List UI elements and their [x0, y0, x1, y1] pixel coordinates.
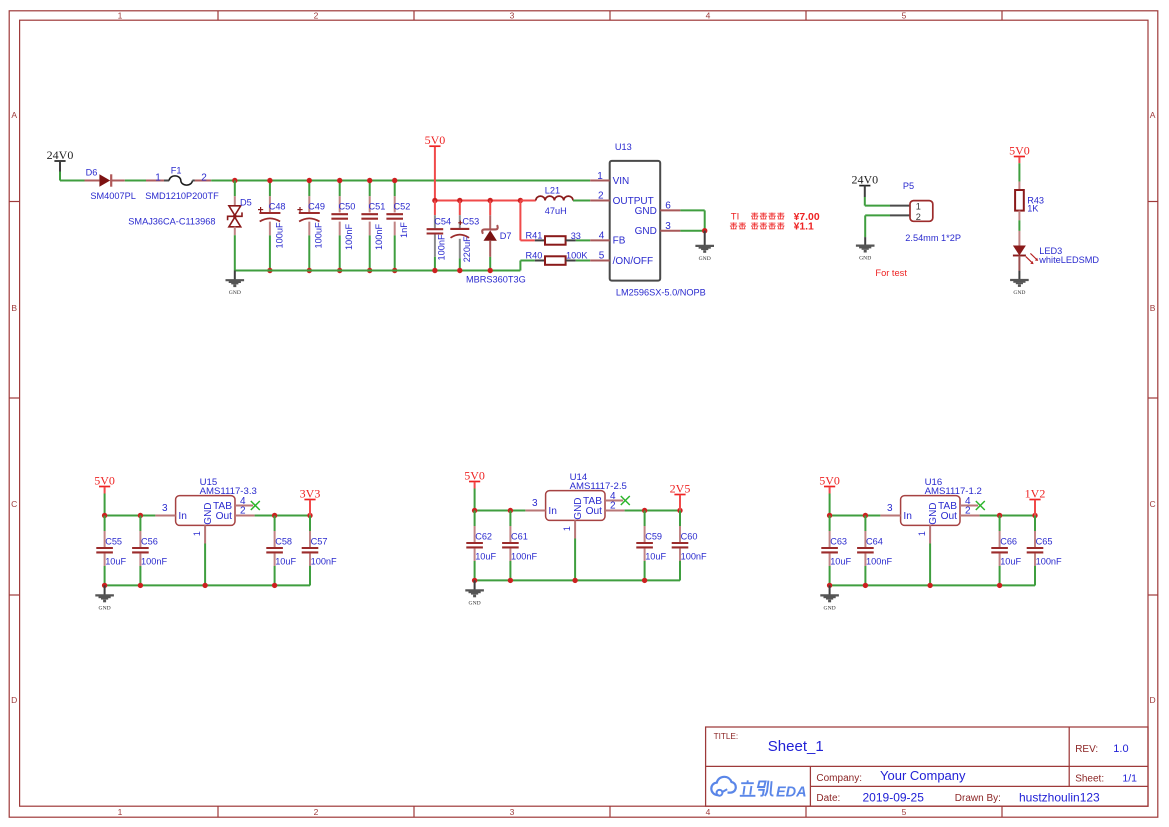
svg-text:2: 2: [598, 191, 604, 202]
capacitor C59 10uF: [636, 511, 666, 581]
net label 3V3: [300, 486, 321, 500]
svg-text:C64: C64: [866, 537, 883, 547]
svg-text:4: 4: [706, 807, 711, 817]
svg-text:C: C: [11, 499, 17, 509]
svg-text:2V5: 2V5: [670, 481, 691, 495]
svg-text:U13: U13: [615, 142, 632, 152]
svg-text:C57: C57: [311, 537, 328, 547]
wire 24V0 stem: [59, 161, 61, 172]
svg-text:MBRS360T3G: MBRS360T3G: [466, 275, 526, 285]
wire 5V0 stem (U14): [474, 482, 476, 511]
wire 5V0 to R43: [1018, 157, 1020, 182]
svg-text:D: D: [11, 695, 17, 705]
svg-text:D7: D7: [500, 231, 512, 241]
capacitor C64 100nF: [857, 516, 892, 586]
svg-text:B: B: [1150, 303, 1156, 313]
svg-text:1: 1: [118, 807, 123, 817]
connector P5 2.54mm 1*2P: [890, 181, 961, 243]
svg-text:C56: C56: [141, 537, 158, 547]
svg-text:100nF: 100nF: [681, 552, 707, 562]
svg-text:10uF: 10uF: [645, 552, 666, 562]
svg-text:1V2: 1V2: [1025, 486, 1046, 500]
svg-text:For test: For test: [875, 268, 907, 278]
svg-text:C66: C66: [1000, 537, 1017, 547]
svg-text:1: 1: [597, 171, 603, 182]
svg-text:33: 33: [571, 231, 581, 241]
svg-text:100uF: 100uF: [314, 222, 324, 248]
pin 2 Out (U16): [960, 505, 980, 516]
wire ground rail (U14): [472, 561, 680, 583]
wire 2V5 stem: [679, 495, 681, 511]
wire ground rail (U16): [827, 566, 1035, 588]
wire U13 GND pins to ground: [680, 210, 707, 233]
wire 5V0 stem (U16): [829, 487, 831, 516]
svg-text:SMD1210P200TF: SMD1210P200TF: [145, 191, 219, 201]
regulator U14 AMS1117-2.5: [546, 472, 627, 521]
capacitor C56 100nF: [132, 516, 167, 586]
svg-text:C51: C51: [369, 201, 386, 211]
svg-text:2019-09-25: 2019-09-25: [863, 791, 925, 805]
wire 24V0 rail to D6: [60, 180, 85, 182]
diode D5 SMAJ36CA-C113968 (TVS): [128, 178, 251, 271]
svg-text:D: D: [1150, 695, 1156, 705]
svg-text:1: 1: [917, 531, 927, 536]
wire 5V0 stem (U15): [104, 487, 106, 516]
svg-text:C52: C52: [394, 201, 411, 211]
wire input rail (U16): [827, 513, 881, 518]
capacitor C62 10uF: [466, 511, 496, 581]
resistor R41 33: [526, 230, 591, 244]
ground rail wire: [235, 270, 521, 272]
svg-text:100nF: 100nF: [374, 224, 384, 250]
capacitor C60 100nF: [672, 511, 707, 581]
svg-text:100nF: 100nF: [1036, 557, 1062, 567]
svg-text:Sheet:: Sheet:: [1075, 773, 1104, 784]
resistor R40 100K: [526, 250, 591, 264]
pin 1 GND (U14): [562, 520, 575, 580]
wire 1V2 stem: [1034, 500, 1036, 516]
svg-text:B: B: [11, 303, 17, 313]
svg-text:5: 5: [902, 807, 907, 817]
svg-text:AMS1117-3.3: AMS1117-3.3: [200, 486, 257, 497]
svg-text:100nF: 100nF: [866, 557, 892, 567]
svg-text:10uF: 10uF: [275, 557, 296, 567]
wire output rail (U15): [255, 513, 313, 518]
svg-text:AMS1117-1.2: AMS1117-1.2: [925, 486, 982, 497]
svg-text:GND: GND: [635, 226, 657, 237]
svg-text:5: 5: [902, 11, 907, 21]
resistor R43 1K: [1015, 182, 1044, 221]
regulator U16 AMS1117-1.2: [901, 477, 982, 526]
ground (U16): [820, 585, 839, 611]
capacitor C50 100nF: [331, 178, 355, 273]
svg-text:Company:: Company:: [816, 773, 862, 784]
svg-text:1.0: 1.0: [1113, 743, 1128, 755]
pin 4 TAB no-connect (U15): [235, 496, 260, 510]
svg-text:100K: 100K: [566, 250, 588, 260]
svg-text:1: 1: [562, 526, 572, 531]
wire ground rail (U15): [102, 566, 310, 588]
note huaguan price: [730, 222, 814, 233]
svg-text:C48: C48: [269, 201, 286, 211]
ground (P5): [856, 237, 875, 261]
diode D7 MBRS360T3G (schottky): [466, 198, 526, 285]
svg-text:10uF: 10uF: [475, 552, 496, 562]
svg-text:hustzhoulin123: hustzhoulin123: [1019, 791, 1100, 805]
note TI price: [731, 212, 820, 223]
pin 1 GND (U15): [192, 525, 205, 585]
wire 5V0 to R41 elbow: [518, 198, 523, 203]
svg-text:3: 3: [665, 221, 671, 232]
svg-text:C54: C54: [434, 216, 451, 226]
svg-text:5V0: 5V0: [819, 473, 840, 487]
svg-text:C49: C49: [308, 201, 325, 211]
capacitor C54 100nF: [427, 201, 452, 274]
svg-text:2: 2: [916, 212, 921, 222]
svg-text:C: C: [1150, 499, 1156, 509]
svg-text:In: In: [903, 511, 912, 522]
capacitor C55 10uF: [96, 516, 126, 586]
wire output rail (U16): [980, 513, 1038, 518]
svg-text:GND: GND: [229, 290, 241, 296]
capacitor C63 10uF: [821, 516, 851, 586]
wire GND rail to R40 elbow: [519, 261, 521, 271]
svg-text:P5: P5: [903, 181, 914, 191]
svg-text:GND: GND: [859, 256, 871, 262]
net label 24V0 input: [47, 148, 74, 162]
pin 3 In (U14): [525, 498, 545, 510]
svg-text:C58: C58: [275, 537, 292, 547]
diode D6 SM4007PL: [85, 167, 136, 201]
svg-text:A: A: [11, 110, 17, 120]
svg-text:100nF: 100nF: [141, 557, 167, 567]
net label 24V0 (test point): [851, 172, 878, 186]
ground (input bank): [226, 271, 245, 297]
wire F1 to VIN rail: [211, 180, 590, 182]
svg-text:/ON/OFF: /ON/OFF: [613, 256, 654, 267]
net label 5V0 (U14): [464, 468, 485, 482]
svg-text:3: 3: [887, 503, 893, 514]
svg-text:A: A: [1150, 110, 1156, 120]
capacitor C48 100uF: [258, 178, 286, 273]
svg-text:C60: C60: [681, 532, 698, 542]
svg-text:C62: C62: [475, 532, 492, 542]
svg-text:100nF: 100nF: [436, 234, 446, 260]
net label 2V5: [670, 481, 691, 495]
svg-text:5: 5: [599, 251, 605, 262]
svg-text:1/1: 1/1: [1122, 772, 1137, 784]
svg-text:3V3: 3V3: [300, 486, 321, 500]
svg-text:GND: GND: [824, 605, 836, 611]
title block: [706, 727, 1148, 806]
svg-text:¥1.1: ¥1.1: [794, 222, 814, 233]
svg-text:REV:: REV:: [1075, 744, 1098, 755]
pin 2 OUTPUT: [590, 191, 654, 207]
svg-text:GND: GND: [699, 256, 711, 262]
svg-text:2: 2: [965, 505, 971, 516]
svg-text:4: 4: [706, 11, 711, 21]
svg-text:In: In: [178, 511, 187, 522]
svg-text:Your Company: Your Company: [880, 768, 966, 783]
svg-text:10uF: 10uF: [1000, 557, 1021, 567]
wire 5V0 output rail: [435, 200, 521, 202]
svg-text:220uF: 220uF: [462, 236, 472, 262]
wire input rail (U14): [472, 508, 526, 513]
svg-text:2: 2: [201, 173, 207, 184]
inductor L21 47uH: [520, 186, 590, 217]
pin 3 GND: [635, 221, 681, 237]
wire 24V0 to P5 pin1: [865, 185, 890, 205]
svg-text:5V0: 5V0: [94, 473, 115, 487]
net label 5V0 (LED): [1009, 143, 1030, 157]
svg-text:3: 3: [532, 498, 538, 509]
svg-text:SMAJ36CA-C113968: SMAJ36CA-C113968: [128, 217, 215, 227]
pin 3 In (U16): [880, 503, 900, 515]
wire D6 to F1: [125, 180, 146, 182]
capacitor C65 100nF: [1027, 516, 1062, 586]
svg-text:2.54mm 1*2P: 2.54mm 1*2P: [905, 233, 961, 243]
svg-text:C59: C59: [645, 532, 662, 542]
svg-text:GND: GND: [99, 605, 111, 611]
svg-text:R40: R40: [526, 250, 543, 260]
svg-text:AMS1117-2.5: AMS1117-2.5: [570, 481, 627, 492]
capacitor C66 10uF: [991, 516, 1021, 586]
pin 2 Out (U14): [605, 500, 625, 511]
logo LCEDA: [711, 777, 806, 801]
svg-text:R41: R41: [526, 230, 543, 240]
svg-text:2: 2: [314, 11, 319, 21]
svg-text:100nF: 100nF: [511, 552, 537, 562]
svg-text:100nF: 100nF: [311, 557, 337, 567]
svg-text:GND: GND: [469, 600, 481, 606]
wire R43 to LED3: [1018, 220, 1020, 231]
svg-text:1: 1: [192, 531, 202, 536]
pin 5 /ON/OFF: [590, 251, 653, 267]
svg-text:2: 2: [314, 807, 319, 817]
svg-text:L21: L21: [545, 186, 560, 196]
svg-text:C65: C65: [1036, 537, 1053, 547]
svg-text:3: 3: [510, 807, 515, 817]
svg-text:Sheet_1: Sheet_1: [768, 738, 824, 755]
wire P5 pin2 to ground: [865, 215, 890, 237]
wire input rail (U15): [102, 513, 155, 518]
ground (LED3): [1010, 271, 1029, 296]
wire output rail (U14): [625, 508, 683, 513]
capacitor C58 10uF: [266, 516, 296, 586]
svg-text:C61: C61: [511, 532, 528, 542]
pin 1 GND (U16): [917, 525, 930, 585]
svg-text:Drawn By:: Drawn By:: [955, 793, 1001, 804]
svg-text:LM2596SX-5.0/NOPB: LM2596SX-5.0/NOPB: [616, 287, 706, 297]
svg-text:In: In: [548, 506, 557, 517]
svg-text:TITLE:: TITLE:: [714, 732, 739, 741]
svg-text:5V0: 5V0: [425, 133, 446, 147]
net label 5V0 (buck output): [425, 133, 446, 147]
svg-text:EDA: EDA: [776, 784, 807, 800]
capacitor C51 100nF: [361, 178, 385, 273]
svg-text:D6: D6: [86, 167, 98, 177]
capacitor C49 100uF: [297, 178, 325, 273]
fuse F1 SMD1210P200TF: [145, 165, 219, 201]
svg-text:10uF: 10uF: [830, 557, 851, 567]
svg-text:1: 1: [916, 201, 921, 211]
svg-text:Date:: Date:: [816, 793, 840, 804]
svg-text:C53: C53: [462, 216, 479, 226]
svg-text:F1: F1: [171, 165, 182, 175]
ground (U13): [695, 231, 714, 262]
capacitor C61 100nF: [502, 511, 537, 581]
pin 2 Out (U15): [235, 505, 255, 516]
svg-text:2: 2: [240, 505, 246, 516]
svg-text:1K: 1K: [1027, 203, 1039, 213]
svg-text:SM4007PL: SM4007PL: [90, 191, 135, 201]
svg-text:VIN: VIN: [613, 176, 630, 187]
capacitor C53 220uF: [450, 198, 479, 273]
svg-text:Out: Out: [941, 511, 958, 522]
svg-text:3: 3: [510, 11, 515, 21]
svg-text:C50: C50: [339, 201, 356, 211]
svg-text:1: 1: [118, 11, 123, 21]
svg-text:Out: Out: [216, 511, 233, 522]
capacitor C57 100nF: [302, 516, 337, 586]
regulator U15 AMS1117-3.3: [176, 477, 257, 526]
capacitor C52 1nF: [386, 178, 410, 273]
svg-text:2: 2: [610, 500, 616, 511]
pin 4 FB: [590, 231, 626, 247]
svg-text:100uF: 100uF: [274, 222, 284, 248]
svg-text:4: 4: [599, 231, 605, 242]
IC U13 LM2596SX-5.0/NOPB: [610, 142, 706, 297]
svg-text:1nF: 1nF: [399, 222, 409, 238]
net label 5V0 (U16): [819, 473, 840, 487]
svg-text:FB: FB: [613, 236, 626, 247]
svg-text:C55: C55: [105, 537, 122, 547]
svg-text:GND: GND: [635, 206, 657, 217]
pin 6 GND: [635, 201, 681, 217]
ground (U14): [465, 580, 484, 606]
svg-text:24V0: 24V0: [851, 172, 878, 186]
svg-text:5V0: 5V0: [464, 468, 485, 482]
svg-text:GND: GND: [1013, 290, 1025, 296]
svg-text:24V0: 24V0: [47, 148, 74, 162]
LED LED3 whiteLEDSMD: [1013, 231, 1100, 271]
svg-text:3: 3: [162, 503, 168, 514]
svg-text:1: 1: [155, 173, 161, 184]
ground (U15): [95, 585, 114, 611]
svg-text:D5: D5: [240, 197, 252, 207]
svg-text:TI: TI: [731, 212, 739, 223]
svg-text:100nF: 100nF: [344, 224, 354, 250]
net label 5V0 (U15): [94, 473, 115, 487]
svg-text:C63: C63: [830, 537, 847, 547]
pin 3 In (U15): [155, 503, 175, 515]
svg-text:47uH: 47uH: [545, 206, 567, 216]
pin 4 TAB no-connect (U16): [960, 496, 985, 510]
pin 1 VIN: [590, 171, 629, 187]
svg-text:Out: Out: [586, 506, 603, 517]
svg-text:5V0: 5V0: [1009, 143, 1030, 157]
net label 1V2: [1025, 486, 1046, 500]
svg-text:whiteLEDSMD: whiteLEDSMD: [1038, 255, 1099, 265]
svg-text:6: 6: [665, 201, 671, 212]
wire 5V0 stem crossing VIN rail: [434, 147, 436, 201]
wire 3V3 stem: [309, 500, 311, 516]
pin 4 TAB no-connect (U14): [605, 491, 630, 505]
svg-text:10uF: 10uF: [105, 557, 126, 567]
